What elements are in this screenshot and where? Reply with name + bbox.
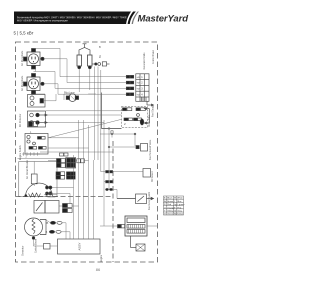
svg-text:Carbon Brush: Carbon Brush [35,238,38,253]
svg-text:AC Receptacle: AC Receptacle [21,50,24,66]
svg-text:Engine: Engine [101,254,103,262]
svg-text:86: 86 [96,267,101,272]
svg-text:B: B [99,45,101,49]
svg-text:Fuel Gauge: Fuel Gauge [153,104,155,117]
svg-text:ASSY: ASSY [78,242,82,250]
svg-text:Control Panel: Control Panel [152,50,155,64]
svg-text:Br: Br [164,200,166,203]
svg-text:Generator Unide: Generator Unide [143,52,146,70]
svg-text:Generator: Generator [22,245,25,256]
svg-text:MasterYard: MasterYard [138,14,189,25]
svg-text:Noise Filter: Noise Filter [148,115,151,127]
svg-text:Pilot Lamp: Pilot Lamp [64,92,76,95]
svg-text:Fuel Solenoid Valve: Fuel Solenoid Valve [150,139,152,160]
svg-text:B: B [46,230,48,234]
svg-text:AC Circuit Breaker: AC Circuit Breaker [26,160,29,179]
svg-text:B: B [47,221,49,225]
svg-text:Fuel Level Switch: Fuel Level Switch [148,191,151,210]
svg-text:5 | 5,5 кВт: 5 | 5,5 кВт [14,31,34,36]
svg-text:MGY 6500ЕР / Инструкция по экс: MGY 6500ЕР / Инструкция по эксплуатации [17,19,68,22]
svg-text:Gr: Gr [174,210,177,213]
svg-text:Yellow: Yellow [167,211,173,213]
svg-text:S.blue: S.blue [177,214,184,216]
svg-text:L.green: L.green [177,203,185,206]
svg-text:DC Protector: DC Protector [19,113,22,127]
svg-text:Green: Green [167,213,174,216]
svg-text:White: White [177,197,183,200]
svg-text:Oil Sensor: Oil Sensor [151,171,154,182]
svg-text:Engine Switch: Engine Switch [19,145,22,160]
svg-text:W: W [174,198,176,200]
svg-text:AC Receptacle: AC Receptacle [21,75,24,91]
